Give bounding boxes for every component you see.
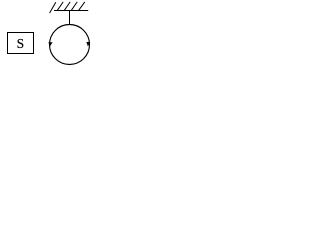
svg-text:S: S — [17, 36, 25, 51]
ceiling support line — [54, 10, 88, 12]
ball circle — [50, 25, 90, 65]
ceiling hatch 4 — [71, 2, 77, 11]
right rotation arrowhead (points down) — [86, 42, 90, 47]
ceiling hatch 5 — [78, 2, 85, 11]
string wire — [69, 11, 71, 25]
background — [0, 0, 95, 69]
ceiling hatch 2 — [57, 2, 63, 11]
box S (source) — [8, 33, 34, 54]
left rotation arrowhead (points down) — [48, 42, 52, 46]
ceiling hatch 3 — [64, 2, 70, 11]
ceiling hatch 1 (overhangs line end) — [50, 2, 56, 13]
